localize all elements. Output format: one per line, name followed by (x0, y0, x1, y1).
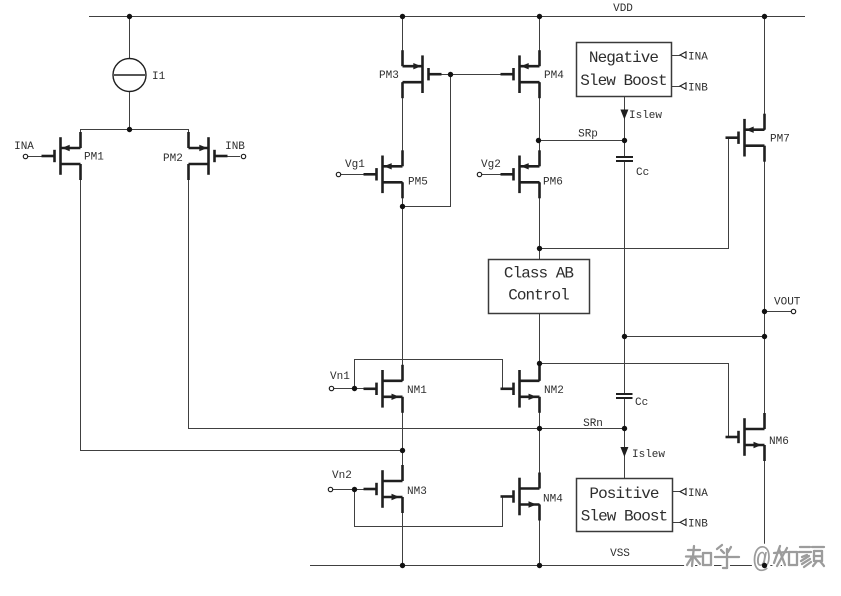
svg-text:Class AB: Class AB (504, 265, 573, 283)
svg-text:Cc: Cc (636, 167, 649, 179)
svg-text:PM2: PM2 (163, 153, 183, 165)
svg-text:NM2: NM2 (544, 385, 564, 397)
svg-text:Vg1: Vg1 (345, 159, 365, 171)
svg-text:VDD: VDD (613, 3, 633, 15)
svg-text:INB: INB (688, 83, 708, 95)
svg-text:NM1: NM1 (407, 385, 427, 397)
svg-text:Cc: Cc (635, 397, 648, 409)
svg-text:INA: INA (688, 52, 708, 64)
svg-text:SRp: SRp (578, 129, 598, 141)
svg-text:PM4: PM4 (544, 70, 564, 82)
svg-text:PM6: PM6 (543, 177, 563, 189)
svg-text:I1: I1 (152, 71, 166, 83)
svg-text:NM6: NM6 (769, 436, 789, 448)
svg-text:INA: INA (14, 141, 34, 153)
svg-text:SRn: SRn (583, 418, 603, 430)
svg-text:Vg2: Vg2 (481, 159, 501, 171)
svg-text:VSS: VSS (610, 548, 630, 560)
svg-text:INA: INA (688, 488, 708, 500)
svg-text:Vn1: Vn1 (330, 371, 350, 383)
svg-text:INB: INB (688, 519, 708, 531)
svg-text:PM1: PM1 (84, 152, 104, 164)
svg-text:Islew: Islew (632, 449, 665, 461)
svg-text:Vn2: Vn2 (332, 470, 352, 482)
svg-text:Positive: Positive (589, 485, 658, 503)
svg-text:Islew: Islew (629, 110, 662, 122)
svg-text:PM3: PM3 (379, 70, 399, 82)
svg-text:INB: INB (225, 141, 245, 153)
svg-text:PM5: PM5 (408, 177, 428, 189)
svg-text:@: @ (753, 543, 770, 576)
svg-text:Slew Boost: Slew Boost (581, 508, 667, 526)
svg-text:Negative: Negative (589, 49, 658, 67)
svg-text:Control: Control (508, 287, 569, 305)
svg-text:VOUT: VOUT (774, 297, 801, 309)
svg-text:NM3: NM3 (407, 486, 427, 498)
svg-text:Slew Boost: Slew Boost (580, 72, 666, 90)
svg-text:NM4: NM4 (543, 494, 563, 506)
svg-text:PM7: PM7 (770, 134, 790, 146)
